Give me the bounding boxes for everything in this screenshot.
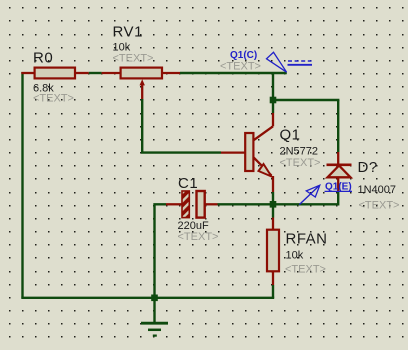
svg-text:D?: D? (358, 159, 378, 176)
junction collector node (270, 97, 277, 104)
node label Q1(E) (299, 182, 352, 205)
svg-text:<TEXT>: <TEXT> (113, 52, 154, 64)
svg-text:<TEXT>: <TEXT> (359, 200, 400, 212)
svg-text:C1: C1 (178, 175, 198, 192)
wire R0 to RV1 (89, 72, 102, 74)
wire C1 right to emitter node (218, 203, 271, 205)
wire emitter node to diode bottom (276, 192, 338, 204)
wire bottom horizontal (21, 297, 274, 299)
svg-text:<TEXT>: <TEXT> (33, 93, 74, 105)
svg-text:Q1: Q1 (280, 126, 301, 143)
svg-text:<TEXT>: <TEXT> (285, 264, 326, 276)
wire RFAN bottom (272, 285, 274, 298)
transistor Q1 (221, 113, 273, 192)
wire RV1 right to label end (180, 72, 287, 74)
ground (141, 298, 168, 336)
diode D? (327, 152, 352, 192)
wire C1 left to ground rail (155, 204, 167, 297)
capacitor C1 (166, 191, 218, 218)
wire left rail vertical (21, 72, 23, 298)
junction emitter node (270, 201, 277, 208)
junction ground node (151, 295, 158, 302)
svg-text:<TEXT>: <TEXT> (220, 61, 261, 73)
resistor R0 (21, 68, 89, 79)
wire diode top vertical (337, 100, 339, 152)
wire collector drop (272, 73, 274, 113)
svg-text:Q1(C): Q1(C) (230, 50, 257, 61)
svg-text:R0: R0 (33, 50, 53, 67)
wire emitter vertical (272, 192, 274, 218)
svg-text:10k: 10k (286, 250, 304, 262)
svg-text:RV1: RV1 (113, 24, 143, 41)
node label Q1(C) (230, 50, 312, 72)
potentiometer RV1 (102, 68, 180, 100)
svg-text:RFAN: RFAN (286, 231, 328, 248)
svg-text:1N4007: 1N4007 (358, 184, 397, 196)
wire RV1 wiper to Q1 base (142, 99, 221, 153)
svg-text:2N5772: 2N5772 (280, 146, 319, 158)
svg-text:<TEXT>: <TEXT> (280, 157, 321, 169)
svg-text:<TEXT>: <TEXT> (178, 231, 219, 243)
wire collector node to diode top (273, 99, 339, 101)
resistor RFAN (267, 218, 279, 286)
